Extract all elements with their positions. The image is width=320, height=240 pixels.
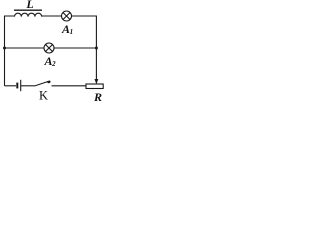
inductor core bar	[14, 9, 42, 11]
wire battery to switch	[21, 85, 35, 87]
node left junction	[3, 47, 6, 50]
wire left side down	[4, 48, 6, 86]
svg-text:L: L	[25, 0, 33, 11]
switch knob	[47, 80, 51, 83]
node right junction	[95, 47, 98, 50]
wire right side down to arrow	[95, 48, 97, 80]
wire A1 to top-right corner	[72, 16, 97, 48]
lamp A1	[62, 11, 72, 21]
battery short thick plate	[16, 83, 18, 89]
rheostat R box	[86, 84, 103, 89]
rheostat wiper arrow	[95, 79, 99, 84]
switch K lever	[35, 81, 49, 86]
svg-text:A1: A1	[61, 22, 73, 36]
svg-text:R: R	[93, 90, 102, 103]
wire inductor to A1	[42, 15, 62, 17]
wire bottom-left to battery	[5, 85, 17, 87]
wire middle branch right	[54, 47, 96, 49]
battery long thin plate	[20, 80, 22, 91]
svg-text:A2: A2	[44, 54, 57, 68]
wire switch to rheostat	[52, 85, 87, 87]
wire top-left segment	[5, 16, 15, 48]
inductor L	[14, 13, 41, 16]
wire middle branch left	[5, 47, 45, 49]
svg-text:K: K	[39, 88, 48, 102]
lamp A2	[44, 43, 54, 53]
